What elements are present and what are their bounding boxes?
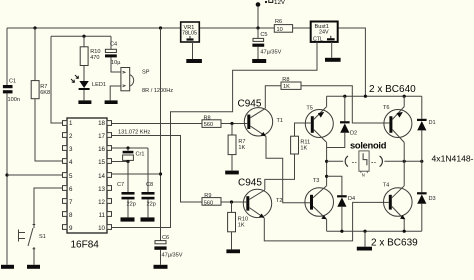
- junction bottom rail/T4 emitter: [403, 230, 406, 233]
- wire T6 emitter to rail: [403, 96, 405, 106]
- wire R8 to T1 base: [221, 123, 247, 125]
- wire solenoid to output right: [384, 160, 421, 162]
- IC pin stubs right (pins 18-10): [107, 121, 112, 230]
- wire pin17 to R9: [112, 136, 203, 203]
- svg-text:47µ/35V: 47µ/35V: [162, 253, 183, 259]
- svg-text:C5: C5: [260, 32, 267, 38]
- ground C8: [141, 217, 155, 221]
- wire base node to R7: [231, 124, 233, 136]
- resistor R8 (1K): [281, 82, 301, 89]
- wire crystal to C7: [127, 162, 129, 193]
- resistor R10 (1K): [228, 212, 236, 231]
- svg-text:2 x BC640: 2 x BC640: [369, 84, 416, 95]
- 12V label: [265, 0, 286, 6]
- svg-text:R9: R9: [204, 193, 211, 199]
- svg-text:47µ/35V: 47µ/35V: [260, 49, 281, 55]
- svg-text:8R / 1200Hz: 8R / 1200Hz: [142, 88, 173, 94]
- wire T5 emitter to rail: [326, 96, 328, 106]
- capacitor C1: [3, 85, 13, 93]
- wire R8 to T6 base: [301, 86, 389, 123]
- wire left rail upper: [6, 28, 8, 85]
- svg-text:D1: D1: [429, 120, 436, 126]
- transistor T1 (C945): [244, 108, 272, 137]
- svg-text:6K8: 6K8: [40, 90, 50, 96]
- resistor R7 (6K8): [31, 81, 39, 99]
- junction crystal bottom / C7: [126, 160, 129, 163]
- wire C6 to ground: [160, 250, 162, 265]
- wire pin6 to switch S1: [34, 188, 63, 225]
- junction T1 base node: [230, 122, 233, 125]
- wire T2 collector to R11: [265, 154, 295, 190]
- pin numbers 18-10: [98, 120, 105, 232]
- svg-text:1K: 1K: [238, 145, 245, 151]
- wire R11 to T5 base: [295, 123, 311, 136]
- svg-text:2: 2: [69, 133, 73, 140]
- junction crystal top: [126, 146, 129, 149]
- capacitor C8 (22p): [142, 192, 155, 199]
- ground LED1: [78, 100, 91, 104]
- wire speaker to ground: [110, 86, 121, 100]
- ground C6: [154, 265, 168, 269]
- svg-text:7: 7: [69, 199, 73, 206]
- svg-text:T6: T6: [383, 105, 390, 111]
- svg-text:18: 18: [98, 120, 105, 127]
- svg-text:C4: C4: [110, 42, 117, 48]
- transistor T6 (BC640): [384, 107, 412, 143]
- svg-text:131.072 KHz: 131.072 KHz: [118, 130, 151, 136]
- svg-text:12: 12: [98, 199, 105, 206]
- wire S1 to ground: [33, 251, 35, 265]
- wire pin15 to crystal bottom: [112, 161, 129, 163]
- wire subrail leg to pin1: [51, 36, 63, 123]
- capacitor C6 (47u/35V): [154, 241, 166, 250]
- diode D4: [327, 176, 347, 231]
- wire T3 emitter to bottom rail: [326, 219, 328, 231]
- ground VR1: [186, 59, 202, 63]
- wire subrail to R10: [83, 36, 85, 47]
- svg-text:14: 14: [98, 173, 105, 180]
- ground H-bridge: [357, 247, 372, 251]
- ground R10: [226, 249, 240, 253]
- junction rail/12V feed: [256, 26, 259, 29]
- wire T1 collector up: [265, 86, 281, 109]
- wire LED1 to ground: [83, 90, 85, 100]
- svg-text:12V: 12V: [274, 0, 286, 6]
- wire pin14 to Vdd column: [112, 173, 161, 175]
- junction T2 base node: [230, 200, 233, 203]
- resistor R7 (1K): [228, 135, 236, 155]
- ground R7: [225, 171, 239, 175]
- svg-text:D3: D3: [429, 196, 436, 202]
- wire Vdd column rail to C6: [160, 28, 162, 241]
- svg-text:1K: 1K: [238, 223, 245, 229]
- resistor R8 (560): [202, 120, 221, 128]
- junction rail/24V feed: [364, 95, 367, 98]
- svg-text:C945: C945: [238, 178, 262, 189]
- svg-text:C7: C7: [117, 182, 124, 188]
- junction rail/T6 emitter: [403, 95, 406, 98]
- wire base node to R10: [231, 202, 233, 212]
- svg-text:C1: C1: [9, 79, 16, 85]
- resistor R11 (1K): [291, 136, 299, 154]
- LED LED1: [71, 75, 90, 90]
- wire C5 to ground: [257, 47, 259, 59]
- solenoid N1: [345, 151, 382, 173]
- svg-text:3: 3: [69, 146, 73, 153]
- wire output left to solenoid: [327, 160, 344, 162]
- svg-text:4: 4: [69, 159, 73, 166]
- wire T4 emitter to bottom rail: [403, 219, 405, 231]
- capacitor C4 (10u): [105, 49, 117, 57]
- svg-text:C6: C6: [162, 235, 169, 241]
- junction rail/R7 column: [33, 26, 36, 29]
- wire 12V feed down to rail: [257, 6, 259, 28]
- wire main +V rail left section: [7, 27, 181, 29]
- svg-text:17: 17: [98, 133, 105, 140]
- svg-text:T3: T3: [313, 178, 320, 184]
- svg-text:S1: S1: [39, 234, 46, 240]
- svg-text:Cr1: Cr1: [136, 152, 145, 158]
- svg-text:16: 16: [98, 146, 105, 153]
- wire H-bridge bottom rail: [327, 230, 422, 232]
- IC U1 16F84 body: [67, 118, 107, 233]
- wire VR1 to ground: [192, 42, 194, 59]
- svg-text:T2: T2: [276, 198, 283, 204]
- svg-text:11: 11: [99, 212, 106, 219]
- wire R10 to LED1: [83, 66, 85, 82]
- wire C8 to ground: [147, 199, 149, 217]
- wire C5 column: [257, 28, 259, 38]
- svg-text:24V: 24V: [319, 30, 329, 36]
- ground Bust1: [325, 58, 341, 62]
- speaker SP: [121, 68, 134, 91]
- ground speaker: [105, 100, 118, 104]
- wire R9 to T2 base: [221, 201, 246, 203]
- resistor R6 (10): [274, 25, 292, 33]
- crystal Cr1: [123, 148, 134, 162]
- svg-text:9: 9: [69, 225, 73, 232]
- svg-text:C8: C8: [146, 182, 153, 188]
- ground C5: [252, 59, 266, 63]
- transistor T3 (BC639): [305, 186, 334, 220]
- converter Bust1 24V: [311, 22, 338, 43]
- svg-text:T5: T5: [306, 106, 313, 112]
- diode D3: [417, 161, 427, 231]
- svg-text:78L05: 78L05: [182, 31, 197, 37]
- svg-text:100n: 100n: [8, 97, 20, 103]
- junction bottom rail/ground: [363, 230, 366, 233]
- wire T4 collector to output: [403, 161, 405, 186]
- wire LED sub-circuit rail: [51, 35, 111, 37]
- svg-text:solenoid: solenoid: [350, 140, 387, 151]
- wire R10 to ground: [231, 232, 233, 250]
- junction rail/Vdd column: [159, 26, 162, 29]
- svg-text:4x1N4148-: 4x1N4148-: [432, 154, 474, 164]
- junction pin5 / left rail: [5, 173, 8, 176]
- wire H-bridge top rail: [327, 95, 422, 97]
- wire bottom rail to ground: [364, 231, 366, 247]
- wire C8 column: [147, 148, 149, 192]
- svg-text:CTL: CTL: [313, 36, 323, 42]
- resistor R10 (470): [80, 47, 88, 66]
- svg-text:1K: 1K: [283, 84, 290, 90]
- svg-text:13: 13: [98, 186, 105, 193]
- svg-text:5: 5: [69, 173, 73, 180]
- capacitor C7 (22p): [122, 192, 135, 199]
- diode D1: [417, 96, 427, 161]
- svg-text:1K: 1K: [300, 145, 307, 151]
- junction rail/D2: [343, 95, 346, 98]
- svg-text:8: 8: [69, 212, 73, 219]
- svg-text:T4: T4: [383, 183, 390, 189]
- resistor R9 (560): [202, 198, 221, 206]
- svg-text:D4: D4: [348, 196, 355, 202]
- ground C7: [121, 217, 135, 221]
- wire C7 to ground: [127, 199, 129, 217]
- svg-text:560: 560: [204, 201, 213, 207]
- switch S1: [19, 225, 36, 252]
- transistor T2 (C945): [243, 189, 271, 218]
- junction bottom rail/D4: [340, 230, 343, 233]
- wire pin16 to crystal top / C8 column: [112, 147, 149, 149]
- svg-text:SP: SP: [142, 70, 150, 76]
- capacitor C5 (47u/35V): [252, 38, 264, 46]
- transistor T4 (BC639): [384, 186, 413, 220]
- ground left rail: [1, 265, 14, 269]
- wire Bust1 output to H-bridge rail: [338, 28, 366, 96]
- ground S1: [27, 265, 40, 269]
- transistor T5 (BC640): [305, 107, 333, 143]
- wire R7 to pin4: [35, 99, 63, 161]
- svg-text:15: 15: [98, 159, 105, 166]
- wire subrail to C4: [110, 36, 112, 49]
- svg-text:1: 1: [69, 120, 73, 127]
- wire Bust1 gnd pin: [331, 42, 333, 58]
- svg-text:10: 10: [98, 225, 105, 232]
- wire pin5 to ground rail: [7, 174, 63, 176]
- IC pin stubs left (pins 1-9): [63, 121, 68, 230]
- svg-text:D2: D2: [350, 131, 357, 137]
- wire T1 emitter to T3 base: [266, 136, 310, 202]
- junction D4 branch: [325, 175, 328, 178]
- svg-text:2 x BC639: 2 x BC639: [371, 237, 418, 248]
- junction output right / diode column: [420, 160, 423, 163]
- svg-text:6: 6: [69, 186, 73, 193]
- svg-text:10µ: 10µ: [111, 60, 121, 66]
- node +12V supply dot: [256, 2, 261, 7]
- junction output left node: [325, 160, 328, 163]
- wire R7 to ground: [231, 155, 233, 171]
- regulator VR1 78L05: [181, 22, 200, 42]
- wire rail to R7: [34, 28, 36, 81]
- svg-text:LED1: LED1: [92, 82, 106, 88]
- wire R6 to Bust1: [293, 27, 311, 29]
- wire pin18 to R8: [112, 123, 203, 125]
- svg-text:16F84: 16F84: [71, 240, 100, 251]
- wire T5 collector down / T3 collector column: [326, 142, 328, 185]
- junction subrail/R10: [82, 35, 85, 38]
- diode D2: [327, 96, 350, 147]
- wire C4 to speaker: [111, 57, 121, 72]
- wire T6 collector to output: [403, 142, 405, 161]
- wire left rail lower: [6, 93, 8, 264]
- svg-text:560: 560: [204, 122, 213, 128]
- svg-text:10: 10: [277, 27, 283, 33]
- svg-text:T1: T1: [277, 118, 284, 124]
- wire main rail VR1 to R6: [199, 27, 274, 29]
- svg-text:470: 470: [90, 55, 99, 61]
- wire Bust1 CTL to pin10: [112, 42, 318, 228]
- pin numbers 1-9: [69, 120, 73, 232]
- junction pin14/Vdd: [159, 172, 162, 175]
- wire T2 emitter to T4 base: [264, 202, 389, 241]
- junction output right / T6-T4 column: [403, 160, 406, 163]
- svg-text:N: N: [362, 173, 365, 178]
